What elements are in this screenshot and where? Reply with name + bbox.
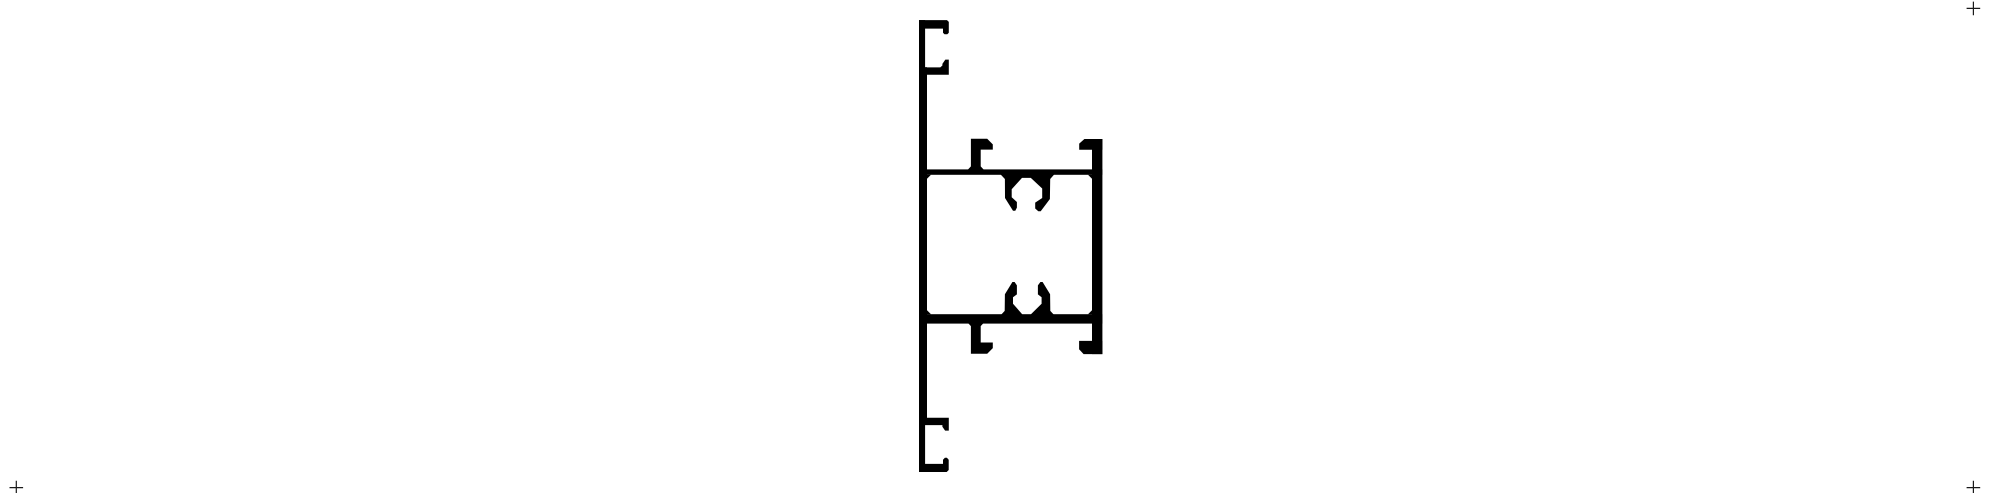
interior fillet bottom-left (927, 310, 931, 314)
interior fillet top-right (1088, 175, 1092, 179)
web main segment (919, 67, 927, 418)
top C-channel bottom flange with lip (919, 60, 949, 75)
registration cross bottom-left (10, 481, 24, 493)
interior fillet top-left (927, 175, 931, 179)
top-left tab (968, 139, 993, 170)
web upper narrow segment (919, 20, 925, 75)
bottom C-channel bottom flange with lip (919, 458, 949, 472)
top-right hook (1079, 139, 1102, 150)
top bar of box (919, 169, 1102, 174)
registration cross bottom-right (1967, 481, 1981, 493)
web lower narrow segment (919, 418, 925, 473)
right wall (1092, 139, 1102, 354)
bottom screw channel left claw (1000, 282, 1022, 316)
bottom screw channel right claw (1031, 282, 1055, 316)
bottom bar of box (919, 314, 1102, 323)
bottom-left tab (968, 323, 993, 354)
bottom C-channel top flange with lip (919, 418, 949, 431)
interior fillet bottom-right (1088, 310, 1092, 314)
top C-channel top flange with lip (919, 20, 949, 34)
registration cross top-right (1967, 2, 1981, 16)
bottom-right hook (1079, 341, 1102, 354)
top screw channel (1000, 174, 1054, 211)
